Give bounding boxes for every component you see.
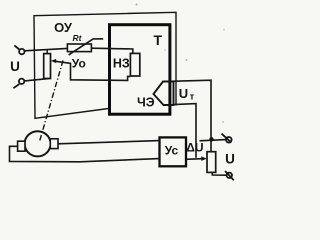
thermistor Rt [67, 39, 103, 55]
box T (thermostat enclosure) [110, 25, 170, 115]
svg-text:ЧЭ: ЧЭ [137, 96, 155, 110]
terminal output top [222, 134, 232, 143]
scan speckles [136, 4, 138, 6]
wire sensor top output to right bus [170, 80, 211, 152]
sensor ChE (pentagon tag) [154, 82, 174, 106]
svg-text:НЗ: НЗ [113, 57, 130, 71]
amplifier Us box [160, 137, 187, 166]
wiper arrow of potentiometer [51, 59, 131, 81]
svg-text:Ус: Ус [165, 143, 179, 157]
terminal input top [14, 45, 24, 54]
outer box OU (controller enclosure) [34, 12, 176, 118]
wire pot bottom to bottom terminal [212, 172, 226, 175]
wire motor right brush to amplifier [58, 141, 160, 144]
svg-text:т: т [190, 91, 195, 101]
wire amplifier output arrow to pot wiper [186, 158, 202, 161]
svg-text:U: U [225, 151, 235, 166]
svg-text:U: U [10, 59, 20, 74]
wire Rt to heater resistor [91, 48, 132, 53]
wire bottom terminal to potentiometer bottom [25, 79, 49, 81]
wire sensor lower output down to amplifier input [174, 104, 197, 158]
svg-text:ОУ: ОУ [54, 20, 73, 35]
wire motor left brush loop to amplifier [10, 146, 160, 162]
terminal output bottom [225, 171, 234, 180]
motor brush left [18, 141, 25, 151]
motor M [25, 131, 51, 156]
svg-text:Уо: Уо [72, 57, 86, 71]
heater element resistor NZ [130, 53, 139, 76]
svg-text:U: U [179, 86, 188, 101]
output potentiometer [207, 152, 216, 173]
setpoint potentiometer Uo (vertical) [44, 50, 51, 79]
mechanical link dash-dot line motor to wiper [40, 61, 64, 142]
junction dot [209, 137, 213, 141]
wire junction to top right terminal [200, 140, 227, 141]
terminal input bottom [13, 79, 24, 89]
svg-text:Т: Т [154, 32, 163, 48]
svg-text:ΔU: ΔU [186, 141, 203, 155]
wire top terminal to Rt [25, 48, 68, 50]
motor brush right [50, 139, 58, 149]
svg-text:Rt: Rt [73, 33, 83, 43]
